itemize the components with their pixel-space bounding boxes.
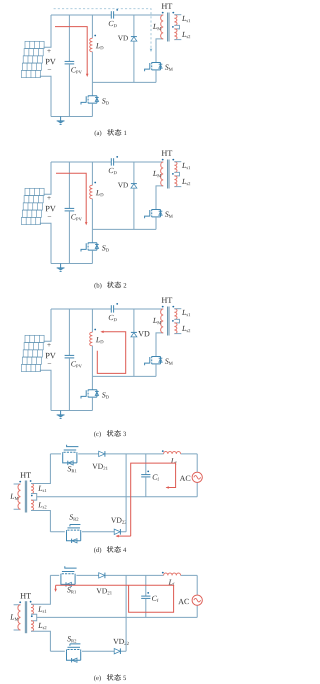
ground <box>57 411 65 419</box>
wire: secondary series link <box>174 172 179 176</box>
transistor S_M <box>145 62 163 71</box>
inductor L_D <box>90 332 93 346</box>
transformer HT <box>162 150 167 155</box>
transformer core <box>167 307 169 336</box>
wire: PV positive lead <box>44 309 51 341</box>
AC source <box>192 595 202 605</box>
wire: center-tap link <box>31 614 37 621</box>
winding L_M (primary) <box>161 309 164 333</box>
wire: bottom rail <box>51 116 92 118</box>
PV panel <box>21 188 44 224</box>
diode VD_22 <box>114 529 120 535</box>
winding L_s1 <box>174 15 177 26</box>
wire: PV negative lead <box>40 370 51 410</box>
wire: center-tap link <box>31 494 37 501</box>
caption (e) <box>94 675 96 681</box>
ground <box>57 117 65 125</box>
transistor S_M <box>145 209 163 218</box>
wire: S_M source <box>155 217 157 230</box>
transformer core <box>24 481 26 513</box>
wire: transformer primary bottom to S_M drain <box>156 333 163 357</box>
wire: VD branch upper <box>133 15 135 37</box>
wire: C_f branch upper <box>145 454 147 475</box>
wire: right riser joining rectifier outputs <box>125 454 127 532</box>
wire: S_D drain <box>91 376 93 389</box>
transformer HT <box>20 472 25 477</box>
wire: L_s2 bottom lead <box>174 186 181 188</box>
caption (b) <box>94 283 96 289</box>
wire: L_s1 top lead <box>174 161 181 163</box>
wire: L_D branch lower <box>91 199 93 230</box>
winding L_M (primary) <box>161 15 164 39</box>
capacitor C_D <box>111 11 113 18</box>
inductor L_D <box>90 185 93 199</box>
capacitor C_PV <box>65 208 75 211</box>
wire: bottom rail <box>51 263 92 265</box>
PV panel <box>21 41 44 77</box>
wire: C_f branch lower <box>145 599 147 618</box>
transformer HT <box>162 297 167 302</box>
wire: AC right riser <box>196 575 198 617</box>
wire: secondary series link <box>174 319 179 323</box>
wire: L_D branch upper <box>91 162 93 185</box>
wire: L_D branch upper <box>91 15 93 38</box>
wire: S_M source <box>155 364 157 377</box>
dashed current loop through C_D <box>54 9 151 49</box>
diode VD <box>131 184 137 189</box>
wire: top rail right of C_D <box>114 161 163 163</box>
capacitor C_D <box>111 305 113 312</box>
wire: S_D source <box>91 250 93 263</box>
wire: S_D drain <box>91 229 93 242</box>
wire: top rail <box>50 453 197 455</box>
wire: L_s2 bottom lead and left riser <box>31 631 50 651</box>
wire: C_PV branch lower <box>68 211 70 263</box>
transistor S_D <box>81 243 99 252</box>
winding L_s2 <box>174 29 177 40</box>
red current loop (state 5) <box>55 585 57 589</box>
wire: L_s1 top lead and left riser <box>31 575 50 604</box>
wire: C_PV branch upper <box>68 15 70 61</box>
wire: mid rail <box>92 228 156 230</box>
wire: S_M source <box>155 70 157 83</box>
wire: mid rail <box>92 375 156 377</box>
capacitor C_f <box>141 596 150 598</box>
wire: PV negative lead <box>40 223 51 263</box>
wire: C_PV branch lower <box>68 64 70 116</box>
winding L_M (primary) <box>14 605 21 630</box>
wire: mid rail <box>92 81 156 83</box>
transformer HT <box>162 3 167 8</box>
transistor S_D <box>81 390 99 399</box>
winding L_s2 <box>174 323 177 334</box>
wire: VD branch lower <box>133 41 135 82</box>
wire: L_s1 top lead and left riser <box>31 454 50 484</box>
wire: S_D drain <box>91 82 93 95</box>
red current path along bottom rail <box>117 535 131 537</box>
red current path through L_D and S_D <box>56 173 86 222</box>
wire: top rail left of C_D <box>51 161 111 163</box>
diode VD <box>131 37 137 42</box>
wire: PV positive lead <box>44 15 51 47</box>
red current loop (state 4) <box>131 463 176 536</box>
winding L_M (primary) <box>161 162 164 186</box>
wire: VD branch lower <box>133 188 135 229</box>
wire: bottom rail <box>51 410 92 412</box>
wire: PV negative lead <box>40 76 51 116</box>
AC source <box>192 472 202 482</box>
wire: top rail right of C_D <box>114 308 163 310</box>
node dot right of C_D <box>116 303 118 305</box>
wire: L_D branch upper <box>91 309 93 332</box>
wire: VD branch upper <box>133 309 135 332</box>
PV panel <box>21 335 44 371</box>
inductor L_f <box>164 573 181 575</box>
wire: L_D branch lower <box>91 346 93 377</box>
wire: C_f branch lower <box>145 477 147 497</box>
transistor S_R1 <box>61 566 77 586</box>
wire: L_s2 bottom lead and left riser <box>31 511 50 532</box>
wire: bottom rail <box>50 650 126 652</box>
caption (a) <box>95 130 97 136</box>
wire: transformer primary bottom to S_M drain <box>156 39 163 63</box>
transistor S_R1 <box>63 445 79 465</box>
wire: C_PV branch lower <box>68 358 70 410</box>
node dot right of C_D <box>116 9 118 11</box>
winding L_s1 <box>174 309 177 320</box>
capacitor C_PV <box>65 355 75 358</box>
transformer core <box>24 601 26 633</box>
caption (d) <box>94 547 96 553</box>
transformer core <box>167 160 169 189</box>
red current path through L_D <box>55 27 87 75</box>
transformer HT <box>20 593 25 598</box>
winding L_s1 <box>31 604 34 614</box>
winding L_M (primary) <box>14 484 21 509</box>
capacitor C_f <box>141 475 150 477</box>
wire: center tap output <box>37 616 198 618</box>
winding L_s1 <box>31 484 34 494</box>
winding L_s2 <box>174 176 177 187</box>
wire: L_s2 bottom lead <box>174 39 181 41</box>
diode VD_21 <box>99 573 105 579</box>
caption (c) <box>94 431 96 437</box>
wire: top rail <box>50 574 197 576</box>
winding L_s2 <box>31 621 34 631</box>
wire: VD branch lower <box>133 337 135 376</box>
diode VD_22 <box>114 648 120 654</box>
transistor S_D <box>81 96 99 105</box>
wire: PV positive lead <box>44 162 51 194</box>
wire: AC right riser <box>196 454 198 497</box>
wire: S_D source <box>91 397 93 410</box>
wire: top rail left of C_D <box>51 14 111 16</box>
diode VD_21 <box>99 451 105 457</box>
wire: L_D branch lower <box>91 52 93 83</box>
red circulating current loop L_D-VD <box>97 332 125 374</box>
transformer core <box>167 13 169 42</box>
wire: L_s2 bottom lead <box>174 333 181 335</box>
capacitor C_PV <box>65 61 75 64</box>
wire: top rail right of C_D <box>114 14 163 16</box>
winding L_s2 <box>31 500 34 510</box>
wire: C_PV branch upper <box>68 162 70 208</box>
wire: S_D source <box>91 103 93 116</box>
inductor L_D <box>90 38 93 52</box>
wire: C_PV branch upper <box>68 309 70 355</box>
inductor L_f <box>164 452 181 454</box>
winding L_s1 <box>174 162 177 173</box>
wire: L_s1 top lead <box>174 308 181 310</box>
wire: VD branch upper <box>133 162 135 184</box>
wire: center tap output <box>37 496 198 498</box>
capacitor C_D <box>111 158 113 165</box>
ground <box>57 264 65 272</box>
transistor S_R2 <box>67 644 81 663</box>
node dot right of C_D <box>116 156 118 158</box>
diode VD <box>131 332 137 337</box>
wire: transformer primary bottom to S_M drain <box>156 186 163 210</box>
transistor S_M <box>145 356 163 365</box>
wire: bottom rail <box>50 531 126 533</box>
transistor S_R2 <box>67 525 81 544</box>
wire: L_s1 top lead <box>174 14 181 16</box>
wire: C_f branch upper <box>145 575 147 596</box>
wire: right riser joining rectifier outputs <box>125 575 127 651</box>
wire: secondary series link <box>174 25 179 29</box>
wire: top rail left of C_D <box>51 308 111 310</box>
